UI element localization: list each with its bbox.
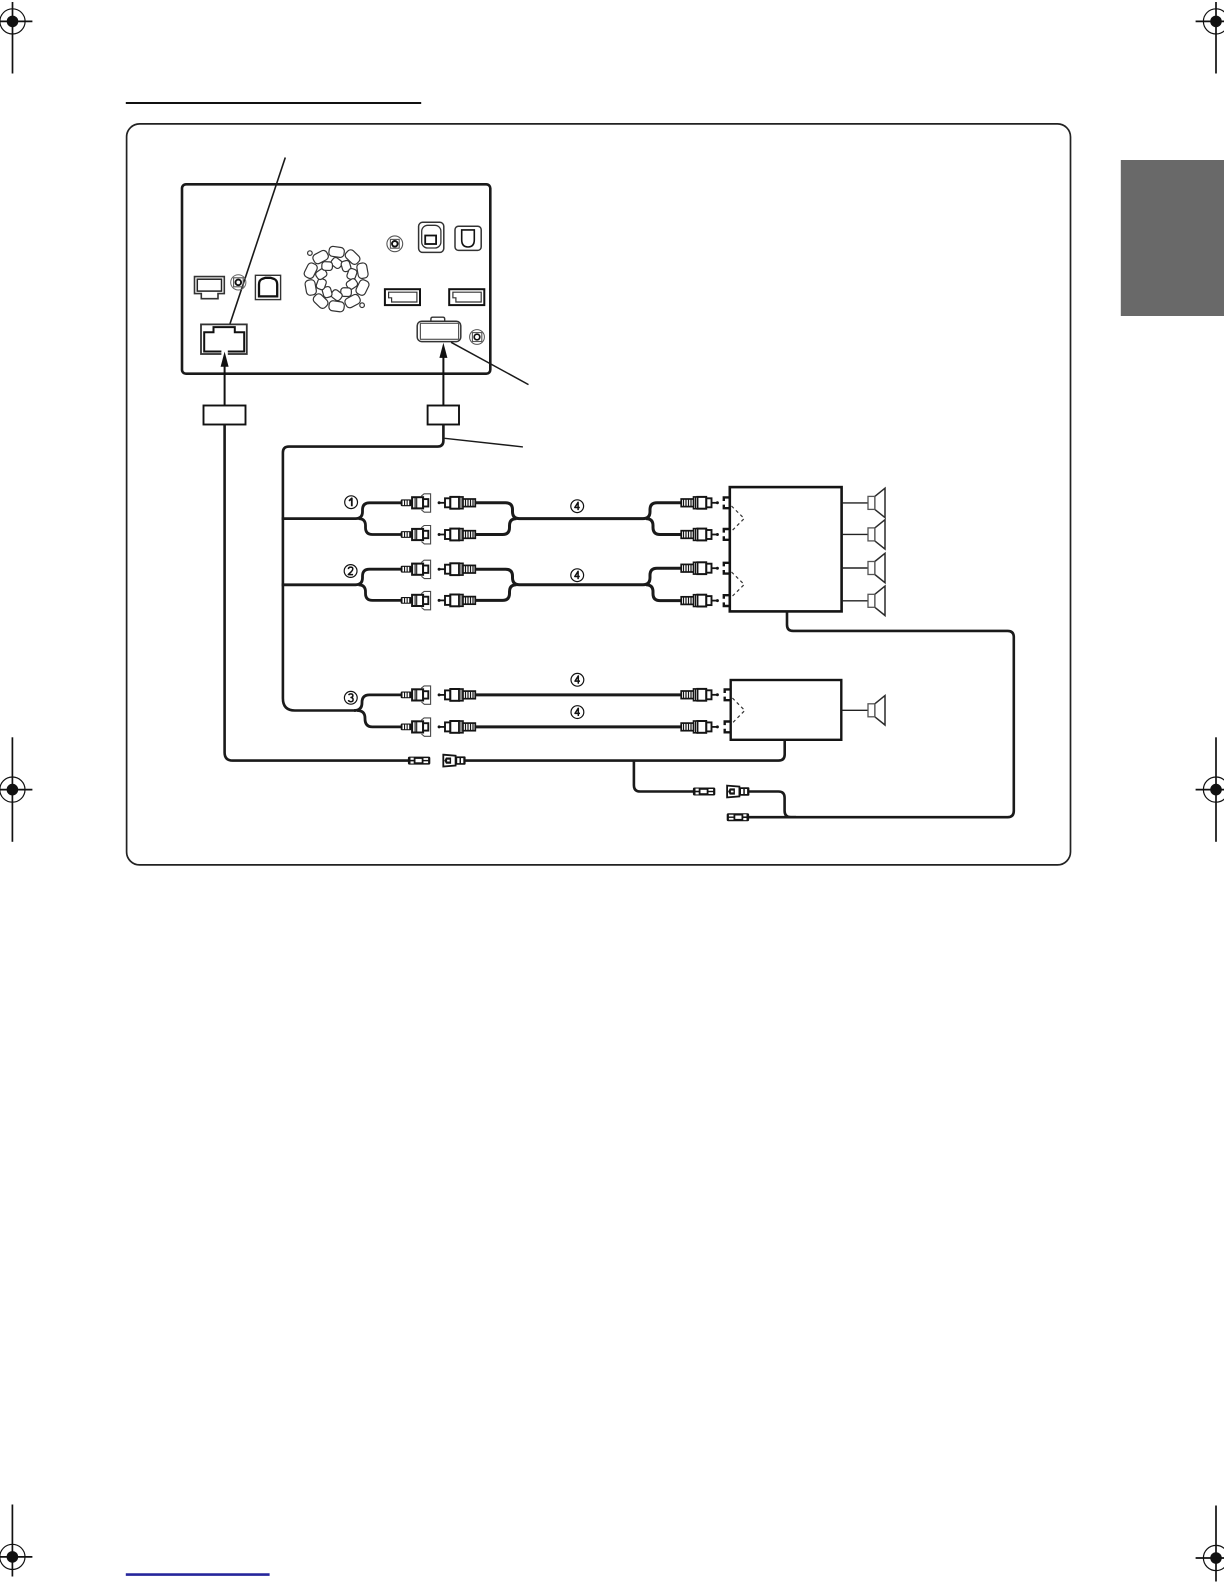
cooling fan: [302, 246, 370, 312]
rear connector (bottom-right): [417, 317, 461, 341]
plugs into amplifier: [681, 689, 719, 701]
label 4 on cable 3 lower: [571, 706, 584, 719]
4ch amplifier: [730, 487, 842, 611]
fan screw hole bottom-right: [360, 303, 365, 308]
male bullet terminal on remote lead: [408, 757, 430, 765]
male plugs of extension cable: [438, 563, 476, 575]
RCA jack top-mid: [387, 236, 403, 252]
branch wire from trunk: [282, 569, 401, 585]
arrow into power connector: [221, 352, 229, 406]
head unit rear panel body: [182, 184, 490, 373]
plugs into amplifier: [681, 562, 719, 574]
branch wire from trunk: [282, 503, 401, 519]
diagram frame: [127, 124, 1071, 865]
USB-B style connector: [255, 275, 280, 299]
bottom blue rule: [126, 1573, 270, 1576]
label 1: [345, 496, 358, 509]
RCA jack bottom-right: [470, 330, 485, 345]
left harness label box: [204, 406, 246, 425]
extension cable merging: [475, 503, 681, 519]
amp1 chevron 1: [732, 506, 745, 531]
leader line from rear connector: [451, 342, 528, 384]
male plugs of extension cable: [438, 497, 476, 509]
label 4 on cable 1: [571, 500, 584, 513]
remote lead trunk from left harness: [225, 425, 409, 761]
subwoofer speaker: [868, 696, 885, 725]
registration mark middle-right: [1196, 737, 1224, 842]
remote wire to mono amp: [465, 740, 785, 761]
leader line at trunk bend: [445, 438, 523, 447]
speakers amp1: [868, 488, 885, 517]
arrow into rear connector: [439, 343, 447, 406]
RCA jack left-mid: [231, 275, 246, 290]
plugs into amplifier: [681, 497, 719, 509]
amp2 input jacks: [725, 689, 732, 700]
top heading rule: [126, 102, 421, 104]
amp1 remote wire: [749, 611, 1014, 818]
RCA trunk from right harness: [283, 425, 444, 711]
registration mark bottom-left: [0, 1505, 32, 1577]
display connector (top-left of panel): [195, 277, 225, 299]
male plugs of extension cables: [438, 689, 476, 701]
male bullet terminal on amp1 remote end: [727, 813, 749, 821]
fan screw hole top-left: [308, 251, 313, 256]
male bullet terminal on branch: [693, 788, 715, 796]
female bullet terminal on amp1 pigtail: [727, 786, 749, 798]
optical connector: [455, 226, 481, 250]
mono amplifier: [731, 680, 842, 740]
label 2: [344, 565, 357, 578]
amp1 input jacks: [724, 497, 731, 508]
leader line to power connector: [230, 158, 286, 326]
registration mark middle-left: [0, 737, 32, 842]
label 3: [344, 691, 357, 704]
right harness label box: [428, 406, 459, 425]
female jacks: [401, 686, 431, 704]
gray chapter tab: [1121, 160, 1224, 316]
remote branch wire: [634, 761, 693, 792]
interface port right: [449, 289, 484, 305]
square DIN connector: [419, 222, 444, 252]
amp2 chevron: [732, 698, 744, 723]
speaker wires amp1: [842, 502, 868, 504]
registration mark bottom-right: [1196, 1506, 1224, 1582]
amp1 chevron 2: [732, 572, 745, 597]
female jacks: [401, 494, 431, 512]
registration mark top-right: [1196, 2, 1224, 74]
subwoofer wire: [841, 709, 868, 711]
interface port left: [385, 289, 420, 305]
power supply connector (big, bottom-left): [201, 324, 247, 355]
female jacks: [401, 560, 431, 578]
long extension cables: [475, 693, 681, 696]
female bullet terminal to amp2 remote: [443, 755, 465, 767]
label 4 on cable 2: [571, 569, 584, 582]
fork from trunk: [354, 695, 401, 711]
extension cable merging: [475, 568, 681, 585]
pigtail U-turn wire: [749, 792, 796, 818]
label 4 on cable 3 upper: [571, 673, 584, 686]
registration mark top-left: [0, 2, 32, 74]
